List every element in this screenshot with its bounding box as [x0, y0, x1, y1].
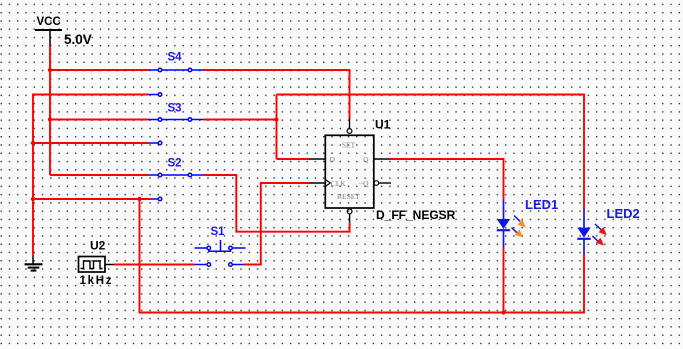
junction ground rail / S2 throw line	[137, 197, 141, 201]
wire ground to S3 lower throw	[33, 142, 149, 144]
svg-text:U1: U1	[375, 118, 391, 132]
svg-text:U2: U2	[90, 239, 106, 253]
LED2	[577, 209, 607, 255]
svg-text:S1: S1	[211, 226, 226, 238]
svg-text:~Q: ~Q	[359, 179, 369, 188]
wire node D to LED2 anode	[277, 95, 585, 210]
switch S2	[149, 173, 204, 201]
pin SET bubble	[347, 129, 352, 134]
pin ~Q bubble	[374, 181, 379, 186]
wire ground to S4 lower throw	[33, 95, 149, 257]
LED1 emission arrows	[512, 216, 526, 238]
power source VCC V1	[35, 16, 92, 47]
wire S1 to U1 CLK	[244, 183, 310, 265]
svg-text:S4: S4	[168, 52, 183, 64]
svg-text:D_FF_NEGSR: D_FF_NEGSR	[376, 208, 456, 222]
wire LED1 cathode to ground rail	[503, 248, 505, 313]
wire S2 to U1 RESET	[204, 175, 350, 232]
svg-text:CLK: CLK	[331, 179, 347, 188]
svg-text:Q: Q	[363, 155, 369, 164]
svg-text:5.0V: 5.0V	[64, 32, 92, 47]
svg-text:VCC: VCC	[37, 16, 61, 28]
pin D	[309, 158, 325, 160]
svg-text:1kHz: 1kHz	[80, 275, 114, 287]
svg-text:S2: S2	[168, 158, 182, 170]
switch S1	[195, 240, 246, 266]
svg-text:S3: S3	[168, 103, 182, 115]
switch S4	[149, 68, 204, 96]
wire ground to S2 lower throw	[33, 198, 151, 200]
junction node D / S3	[275, 118, 279, 122]
wire U2 to S1	[114, 264, 195, 266]
pin RESET bubble	[347, 209, 352, 214]
wire S4 to U1 SET	[204, 70, 350, 119]
wire VCC to S3	[50, 119, 149, 121]
svg-text:LED1: LED1	[525, 197, 558, 212]
ground	[25, 257, 43, 271]
svg-text:RESET: RESET	[337, 192, 360, 201]
wire U1 Q to LED1 anode	[390, 159, 504, 200]
wire node D to U1 D pin	[277, 158, 310, 160]
wire VCC to S2	[50, 174, 149, 176]
junction ground/S2 throw	[31, 197, 35, 201]
wire VCC vertical bus	[49, 46, 51, 176]
junction ground rail / LED1	[501, 310, 505, 314]
pin Q	[374, 158, 390, 160]
svg-text:SET: SET	[342, 141, 356, 150]
svg-text:LED2: LED2	[607, 206, 640, 221]
junction VCC/S4	[48, 68, 52, 72]
wire VCC to S4	[50, 69, 149, 71]
clock source U2	[79, 239, 115, 288]
LED2 emission arrows	[593, 224, 607, 246]
wire ground bottom rail	[140, 199, 585, 313]
switch S3	[149, 118, 204, 145]
wire node D riser	[276, 95, 278, 160]
flip-flop U1	[309, 119, 391, 223]
junction ground/S3 throw	[31, 141, 35, 145]
wire S3 to node D	[204, 119, 277, 121]
pin CLK	[309, 182, 325, 184]
LED1	[497, 200, 526, 248]
junction VCC/S3	[48, 117, 52, 121]
svg-text:D: D	[330, 155, 336, 164]
